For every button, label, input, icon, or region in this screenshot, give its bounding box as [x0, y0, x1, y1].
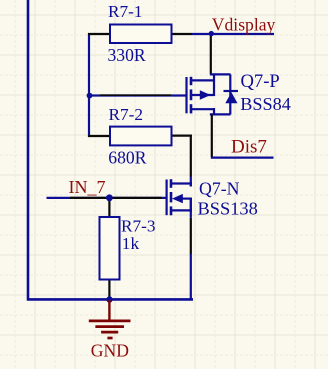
- svg-text:BSS84: BSS84: [240, 94, 291, 114]
- svg-text:Dis7: Dis7: [231, 136, 267, 157]
- svg-text:Q7-P: Q7-P: [241, 71, 280, 92]
- svg-text:R7-1: R7-1: [108, 2, 143, 21]
- svg-text:680R: 680R: [108, 147, 146, 167]
- svg-text:GND: GND: [91, 340, 129, 360]
- svg-text:BSS138: BSS138: [198, 199, 258, 219]
- svg-text:Q7-N: Q7-N: [199, 178, 240, 198]
- svg-text:IN_7: IN_7: [69, 177, 106, 197]
- svg-text:Vdisplay: Vdisplay: [212, 14, 276, 34]
- svg-text:1k: 1k: [122, 234, 140, 253]
- svg-text:R7-2: R7-2: [109, 105, 144, 124]
- svg-text:R7-3: R7-3: [121, 217, 156, 236]
- svg-text:330R: 330R: [108, 45, 146, 65]
